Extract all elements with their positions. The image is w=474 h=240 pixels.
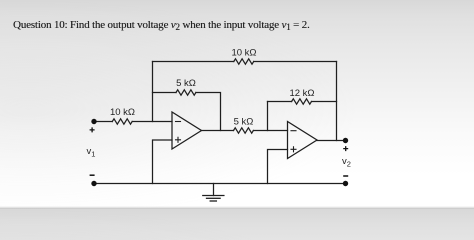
label R2 value 10 kOhm [231, 47, 256, 58]
wire: U1 output to R4 [202, 130, 234, 132]
op-amp U2 [288, 122, 318, 159]
label R1 value 10 kOhm [110, 107, 135, 118]
resistor R4 5k (interstage) zigzag [234, 128, 254, 133]
terminal node v1- [90, 175, 97, 186]
op-amp U1 [172, 112, 202, 149]
terminal node v2- [343, 176, 348, 186]
terminal node v1+ [90, 119, 97, 133]
bottom edge shading [0, 206, 474, 209]
ground symbol [203, 184, 224, 202]
wire: top feedback left segment [153, 61, 234, 63]
label v2 [342, 156, 351, 169]
svg-text:10 kΩ: 10 kΩ [231, 47, 256, 58]
wire: vertical from inverting node up to top feedback [152, 62, 154, 122]
resistor R2 10k (top feedback) zigzag [234, 59, 254, 64]
svg-text:12 kΩ: 12 kΩ [289, 88, 314, 99]
wire: R5 feedback left segment [268, 101, 292, 103]
wire: U1 feedback left segment [153, 92, 177, 94]
wire: right vertical (top feedback + R5 down to U2 output) [336, 62, 338, 141]
terminal node v2+ [343, 138, 348, 151]
wire: R4 to op-amp U2 inverting input [253, 130, 287, 132]
svg-text:10 kΩ: 10 kΩ [110, 107, 135, 118]
label R4 value 5 kOhm [234, 116, 254, 127]
wire: R5 feedback right segment [312, 101, 337, 103]
resistor R1 10k (input) zigzag [112, 119, 132, 124]
question text [13, 19, 310, 31]
resistor R3 5k (U1 feedback) zigzag [176, 90, 196, 95]
wire: U1 feedback right segment [196, 93, 221, 131]
wire: vertical from U2 inverting node up to R5 [267, 102, 269, 131]
wire: bottom ground rail [94, 183, 346, 185]
svg-text:v2: v2 [342, 156, 351, 169]
wire: top feedback right segment [254, 61, 337, 63]
wire: v1+ to R1 [94, 121, 112, 123]
svg-text:v1: v1 [87, 146, 96, 159]
label v1 [87, 146, 96, 159]
svg-text:5 kΩ: 5 kΩ [176, 78, 196, 89]
wire: U2 noninverting input to ground rail [268, 150, 288, 184]
label R3 value 5 kOhm [176, 78, 196, 89]
wire: U2 output to v2+ terminal [317, 140, 346, 142]
svg-text:5 kΩ: 5 kΩ [234, 116, 254, 127]
resistor R5 12k (U2 feedback) zigzag [292, 99, 312, 104]
wire: U1 noninverting input to ground rail [153, 140, 173, 184]
label R5 value 12 kOhm [289, 88, 314, 99]
wire: R1 to op-amp U1 inverting input [132, 121, 172, 123]
